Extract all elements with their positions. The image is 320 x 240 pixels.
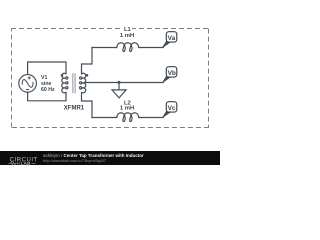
wire: top branch left segment bbox=[92, 47, 116, 49]
white backing of L1 name label bbox=[122, 25, 132, 31]
wire: bottom branch right segment to Vc bbox=[140, 117, 163, 119]
svg-text:1 mH: 1 mH bbox=[120, 33, 134, 39]
svg-text:L1: L1 bbox=[124, 27, 131, 33]
inductor L1 bbox=[116, 43, 140, 52]
primary winding bbox=[62, 73, 68, 93]
svg-text:XFMR1: XFMR1 bbox=[64, 105, 85, 111]
flag Vb bbox=[163, 67, 177, 83]
dashed schematic border bbox=[11, 29, 209, 128]
svg-text:Vc: Vc bbox=[168, 105, 176, 112]
secondary winding bbox=[80, 73, 86, 93]
wire: top branch right segment to Va bbox=[140, 47, 163, 49]
flag Vc bbox=[163, 102, 177, 118]
ground triangle bbox=[112, 90, 126, 98]
wire: V1 bottom to primary bottom bbox=[28, 92, 66, 101]
sine symbol bbox=[21, 78, 34, 90]
plus sign bbox=[26, 76, 31, 89]
wire: bottom branch left segment bbox=[92, 117, 116, 119]
svg-text:60 Hz: 60 Hz bbox=[41, 87, 55, 93]
wire: center tap to Vb bbox=[84, 82, 163, 84]
wire: secondary bottom pin to bottom branch bbox=[82, 93, 93, 118]
transformer XFMR1 bbox=[62, 73, 86, 93]
footer bar bbox=[0, 151, 220, 166]
svg-text:Vb: Vb bbox=[168, 70, 176, 77]
attribution text bbox=[43, 154, 144, 163]
flag Va bbox=[163, 32, 177, 48]
CircuitLab logo bbox=[0, 151, 42, 166]
wire: secondary top pin to top branch bbox=[82, 48, 93, 75]
polarity dot secondary bbox=[86, 74, 89, 77]
transformer core bbox=[73, 73, 75, 93]
svg-text:1 mH: 1 mH bbox=[120, 105, 134, 111]
ground stub bbox=[118, 83, 120, 90]
polarity dot primary bbox=[61, 74, 64, 77]
svg-text:LAB: LAB bbox=[21, 161, 31, 166]
inductor L2 bbox=[116, 113, 140, 122]
wire: V1 top to primary top bbox=[28, 62, 66, 75]
minus sign bbox=[26, 89, 29, 91]
svg-text:Va: Va bbox=[168, 35, 176, 42]
junction node on center tap bbox=[118, 81, 121, 84]
voltage source V1 bbox=[19, 75, 37, 93]
